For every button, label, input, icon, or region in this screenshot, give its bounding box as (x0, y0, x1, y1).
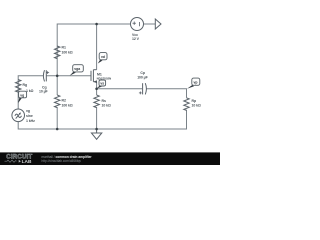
capacitor plus Cp (139, 92, 142, 94)
wire Rp bottom lead (97, 110, 187, 129)
transistor M1 source arrow (93, 80, 97, 83)
svg-text:vga: vga (74, 67, 80, 71)
svg-text:http://circuitlab.com/c866fqv: http://circuitlab.com/c866fqv (42, 159, 82, 163)
resistor Rp (184, 98, 189, 111)
footer logo LAB (19, 160, 21, 163)
net flag vs (97, 80, 106, 88)
svg-text:10 µF: 10 µF (39, 90, 49, 94)
node bottom rail Rs/ground (95, 128, 98, 131)
wire gate row (18, 76, 43, 104)
resistor Rs (94, 95, 99, 108)
V1 plus sign (133, 22, 140, 27)
svg-text:sine: sine (26, 114, 33, 118)
wire top rail (57, 24, 130, 76)
svg-text:100 µF: 100 µF (137, 75, 148, 79)
vg source arrow (16, 113, 21, 118)
node bottom rail R2 (56, 128, 59, 131)
svg-text:10 kΩ: 10 kΩ (192, 104, 201, 108)
transistor M1 (90, 71, 92, 81)
resistor R1 (55, 46, 60, 59)
source vg circle (12, 109, 25, 122)
svg-text:vg: vg (26, 109, 30, 113)
wire Rs bottom lead (96, 107, 98, 129)
capacitor plus Cg (46, 71, 141, 94)
svg-text:vg: vg (20, 93, 24, 97)
capacitor Cp (142, 83, 144, 94)
node drain/top rail (95, 23, 98, 26)
svg-text:Rg: Rg (23, 83, 28, 87)
net flag vd (98, 53, 107, 64)
wire drain vertical (96, 24, 98, 70)
svg-text:R1: R1 (62, 46, 66, 50)
resistor R2 (55, 95, 60, 108)
sine wave in vg (15, 114, 22, 117)
wire gate row right of Cg (47, 75, 91, 77)
svg-text:Rp: Rp (192, 99, 197, 103)
V1 minus bar (139, 22, 141, 26)
wire Rs top lead (96, 89, 98, 95)
svg-text:vp: vp (194, 81, 198, 85)
vg arrow head (19, 112, 21, 114)
svg-text:100 kΩ: 100 kΩ (62, 104, 73, 108)
labels (23, 33, 201, 123)
node source row Rs (95, 88, 98, 91)
footer bar (0, 152, 220, 165)
net flag vga (70, 65, 84, 76)
svg-text:R2: R2 (62, 99, 66, 103)
capacitor Cg (43, 70, 44, 81)
svg-text:12 V: 12 V (132, 37, 140, 41)
svg-text:LAB: LAB (22, 159, 32, 165)
footer logo resistor zigzag (5, 160, 17, 162)
node gate row R1/R2 (56, 75, 59, 78)
svg-text:1 kΩ: 1 kΩ (26, 89, 34, 93)
wire source row (97, 82, 142, 89)
ground (96, 129, 98, 133)
net flag triangle (Vcc) (155, 19, 161, 29)
wire R2 top lead (56, 76, 58, 95)
wire vg source top lead (17, 104, 19, 110)
resistor Rg (16, 80, 21, 93)
source V1 circle (131, 18, 144, 31)
svg-text:1 kHz: 1 kHz (26, 119, 35, 123)
svg-text:vd: vd (101, 55, 105, 59)
svg-text:vs: vs (100, 82, 104, 86)
junction node dots (19, 23, 98, 131)
svg-text:10 kΩ: 10 kΩ (102, 104, 111, 108)
wire source row right of Cp (147, 89, 187, 98)
svg-text:100 kΩ: 100 kΩ (62, 51, 73, 55)
wire bottom rail (18, 122, 96, 129)
wire V1 to Vcc flag (144, 23, 156, 25)
wire R2 bottom lead (56, 107, 58, 129)
net flag vp (187, 78, 200, 89)
net flag vg (18, 91, 27, 103)
svg-text:Rs: Rs (102, 99, 106, 103)
